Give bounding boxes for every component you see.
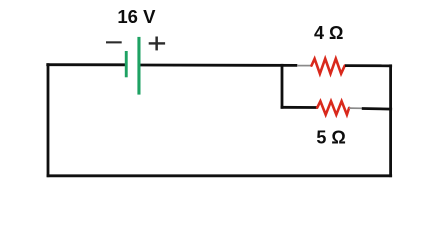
svg-text:16 V: 16 V xyxy=(117,6,156,27)
wire: top-left segment from left corner to battery negative plate xyxy=(46,63,126,66)
battery V1 negative plate (short, green) xyxy=(125,51,128,77)
resistor R2 (5 Ohm) zigzag xyxy=(317,101,349,115)
wire: top segment from battery positive plate to node A xyxy=(139,64,297,67)
wire: right vertical segment xyxy=(389,64,392,177)
wire: top segment from R1 to top-right corner xyxy=(345,64,392,67)
wire: parallel branch right segment to right vertical xyxy=(362,107,392,110)
wire: parallel branch left segment to R2 xyxy=(281,106,318,109)
wire: bottom segment xyxy=(47,174,393,177)
wire: left vertical segment xyxy=(47,63,50,177)
wire: resistor R2 right lead (gray) xyxy=(349,107,362,109)
svg-text:5 Ω: 5 Ω xyxy=(316,127,345,147)
wire: node A vertical drop to parallel branch xyxy=(281,64,284,109)
battery polarity plus sign xyxy=(149,37,165,51)
battery V1 positive plate (tall, green) xyxy=(137,37,140,95)
wire: resistor R1 left lead (gray) xyxy=(297,65,312,67)
svg-text:4 Ω: 4 Ω xyxy=(314,23,343,43)
battery polarity minus sign xyxy=(106,41,122,43)
resistor R1 (4 Ohm) zigzag xyxy=(312,59,345,74)
